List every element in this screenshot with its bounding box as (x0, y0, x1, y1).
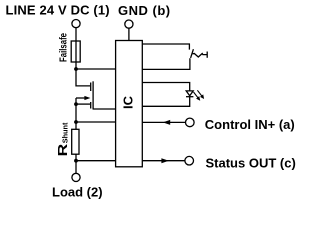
wire body/source branch (75, 98, 77, 104)
svg-text:Failsafe: Failsafe (58, 33, 70, 62)
wire Control IN to IC (142, 121, 185, 123)
wire sense node to IC (76, 121, 116, 123)
wire fuse to node A (75, 62, 77, 69)
terminal Control IN+ (a) (186, 118, 195, 127)
arrow status direction (161, 158, 168, 163)
wire node A to transistor drain (76, 69, 90, 86)
wire LED cathode to IC (142, 97, 189, 107)
wire LINE terminal to fuse (75, 28, 77, 41)
fuse F1 Failsafe (71, 41, 80, 62)
wire GND terminal to IC (128, 28, 130, 40)
resistor Rshunt (72, 129, 79, 154)
node A junction (74, 67, 78, 71)
terminal Load (2) (72, 173, 80, 181)
transistor Q1 (76, 81, 93, 109)
svg-text:IC: IC (120, 95, 135, 109)
wire source node down to sense node (75, 104, 77, 122)
LED D1 (186, 90, 204, 100)
thermal switch S1 (191, 49, 208, 58)
svg-text:R: R (55, 143, 70, 156)
wire IC to thermal switch top (142, 44, 189, 50)
svg-text:Control IN+ (a): Control IN+ (a) (205, 117, 295, 132)
wire Status OUT from IC (142, 160, 184, 162)
junction source node (74, 102, 78, 106)
terminal Status OUT (c) (185, 156, 194, 165)
wire node A to IC supply pin (76, 68, 116, 70)
wire load node to IC feedback pin (76, 160, 116, 162)
terminal GND (b) (125, 20, 133, 28)
wire load node to Load terminal (75, 161, 77, 174)
svg-text:LINE 24 V DC (1): LINE 24 V DC (1) (6, 3, 110, 18)
svg-text:Status OUT (c): Status OUT (c) (206, 155, 296, 170)
junction sense node (74, 120, 78, 124)
wire IC to LED anode (142, 83, 189, 91)
wire thermal switch bottom to IC (142, 58, 190, 69)
wire transistor gate to IC (93, 108, 116, 110)
arrow control direction (163, 120, 170, 125)
terminal LINE (1) (72, 20, 80, 28)
svg-text:Load (2): Load (2) (52, 185, 103, 200)
wire sense node to Rshunt (75, 122, 77, 129)
svg-text:Shunt: Shunt (60, 122, 69, 143)
value label RShunt (55, 122, 70, 156)
junction load node (74, 159, 78, 163)
wire source node to transistor source (76, 103, 90, 105)
svg-text:GND (b): GND (b) (118, 3, 171, 18)
wire Rshunt to load node (75, 154, 77, 161)
op-amp U1 IC block (116, 41, 143, 167)
